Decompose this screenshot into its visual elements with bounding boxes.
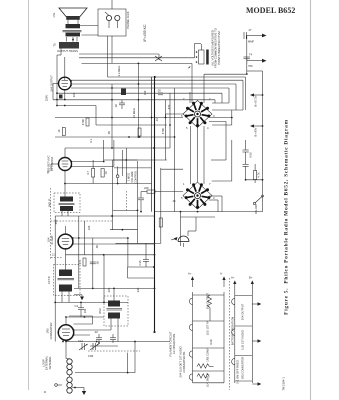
- svg-text:A-: A-: [220, 272, 223, 276]
- svg-text:CONTROL: CONTROL: [134, 170, 138, 184]
- bus wire y84: [71, 83, 236, 110]
- resistor R14: [141, 186, 160, 193]
- svg-text:1R5: 1R5: [46, 328, 50, 333]
- 3rd IF transformer box: [98, 296, 128, 326]
- wire V1 grid loop: [69, 316, 93, 324]
- capacitor C12: [94, 330, 102, 343]
- svg-text:470K: 470K: [81, 119, 85, 125]
- filament rung 5: [193, 382, 225, 384]
- volume control terminal: [116, 167, 119, 184]
- label 1U5: [47, 155, 55, 172]
- wire transformer leads: [67, 37, 78, 42]
- svg-text:.05: .05: [157, 89, 161, 93]
- svg-text:1U5 1ST AUDIO: 1U5 1ST AUDIO: [241, 330, 245, 350]
- wire x92.8: [92, 238, 94, 288]
- bus wire y108: [56, 105, 96, 107]
- svg-text:MMF: MMF: [248, 40, 254, 44]
- bus wire y317: [66, 316, 104, 318]
- capacitor C4: [75, 302, 85, 318]
- label .05b: [107, 131, 111, 135]
- voltage note text: [211, 28, 221, 68]
- B+ tap 2: [250, 124, 263, 136]
- main shielded bus: [152, 76, 155, 332]
- label 455: [54, 219, 58, 224]
- junction dot bus 255: [154, 254, 156, 289]
- wire top right riser: [246, 36, 248, 75]
- wire y161: [113, 159, 138, 161]
- wire y191.6: [141, 192, 183, 198]
- capacitor C13: [110, 334, 116, 343]
- svg-text:ON-OFF: ON-OFF: [254, 203, 258, 214]
- tube socket V3 pinwheel: [183, 101, 212, 128]
- filament rung 1: [189, 295, 224, 305]
- svg-text:POINTS INDICATED VTVM: POINTS INDICATED VTVM: [217, 31, 221, 65]
- tuning capacitor C1A: [78, 339, 88, 350]
- tube V4 3V4 output: [58, 77, 72, 90]
- wire V2 to IF: [62, 178, 68, 216]
- svg-text:7: 7: [209, 182, 211, 186]
- wire pinwheels link: [191, 126, 205, 184]
- resistor R16: [159, 218, 162, 227]
- wire y171 left: [46, 164, 59, 174]
- wire x103.7: [103, 140, 105, 162]
- bus wire y80: [71, 80, 243, 110]
- bus wire y168: [114, 167, 152, 169]
- filament rung 3: [189, 348, 224, 368]
- bus wire y77: [108, 76, 246, 110]
- battery rung 1: [232, 296, 253, 305]
- svg-text:33K: 33K: [136, 287, 140, 292]
- wire x231.8: [212, 140, 232, 181]
- capacitor C5: [121, 89, 126, 96]
- capacitor C8: [90, 261, 100, 265]
- tube socket V2 pinwheel: [183, 182, 212, 209]
- wire x167: [165, 100, 167, 160]
- svg-text:1R5 CONVERTER: 1R5 CONVERTER: [241, 357, 245, 380]
- svg-text:1 MEG: 1 MEG: [127, 173, 131, 181]
- label 1U4: [46, 235, 53, 244]
- svg-text:3V4 OUTPUT: 3V4 OUTPUT: [206, 292, 210, 309]
- svg-text:S-1 ON-OFF RHEO: S-1 ON-OFF RHEO: [236, 360, 240, 384]
- battery operation dashed divider: [230, 278, 235, 390]
- svg-text:0.05: 0.05: [249, 152, 253, 158]
- svg-text:A+: A+: [188, 272, 192, 276]
- rung labels: [206, 292, 214, 387]
- svg-text:100: 100: [143, 90, 147, 95]
- title MODEL B652: [246, 6, 295, 15]
- 1st IF transformer T2: [48, 193, 81, 213]
- switch S2 wafer: [188, 50, 209, 69]
- bus wire y160: [104, 159, 167, 161]
- svg-text:.01: .01: [155, 118, 159, 122]
- svg-text:C1A: C1A: [78, 339, 83, 343]
- svg-text:100: 100: [83, 308, 87, 313]
- resistor R8 vertical zigzag: [208, 295, 212, 321]
- svg-text:4.7: 4.7: [86, 171, 90, 175]
- bus wire y211.6: [155, 211, 263, 213]
- bus wire y93: [56, 92, 222, 103]
- page left edge: [28, 0, 30, 390]
- label 3.3: [117, 66, 121, 77]
- svg-text:250V: 250V: [45, 95, 49, 101]
- svg-text:220: 220: [72, 92, 76, 97]
- svg-text:4.7K: 4.7K: [257, 172, 261, 178]
- 2nd IF transformer T3: [47, 265, 80, 296]
- svg-text:120: 120: [87, 225, 91, 230]
- wire y346: [90, 342, 118, 346]
- svg-text:7: 7: [183, 97, 185, 101]
- filament rail A: [193, 292, 225, 383]
- svg-text:5: 5: [186, 126, 188, 130]
- bus wire y88: [71, 87, 229, 103]
- svg-text:1U5 DET-AVC: 1U5 DET-AVC: [47, 155, 51, 172]
- svg-text:ANTENNA: ANTENNA: [48, 356, 52, 369]
- A+ terminal arrows: [188, 272, 226, 288]
- wire pinwheel2 right taps: [209, 196, 222, 212]
- wire y278: [128, 267, 154, 278]
- pin labels pinwheel V2: [181, 182, 215, 200]
- svg-text:47K: 47K: [167, 104, 171, 109]
- wire y229.7: [110, 229, 138, 231]
- bus wire y183.5: [64, 183, 151, 185]
- wire x113.9: [113, 140, 115, 167]
- svg-text:T5: T5: [53, 43, 57, 47]
- capacitor C19 47mmf: [244, 28, 267, 44]
- label B battery: [43, 391, 47, 393]
- svg-text:1U4: 1U4: [46, 237, 50, 242]
- dashed AVC stub: [51, 253, 62, 258]
- wire V2 pins: [65, 148, 114, 178]
- svg-text:45: 45: [173, 199, 176, 203]
- label 47b: [167, 104, 171, 109]
- bus wire y302.4: [55, 302, 128, 304]
- svg-text:.05: .05: [107, 131, 111, 135]
- svg-text:10 MEG: 10 MEG: [132, 108, 136, 118]
- filament labels left: [179, 346, 187, 377]
- svg-text:1: 1: [183, 182, 185, 186]
- wire x78.8: [78, 216, 80, 288]
- wire x172: [169, 93, 171, 148]
- wire y179.8: [245, 179, 263, 181]
- svg-text:LOOP: LOOP: [41, 359, 45, 367]
- svg-text:3V4 OUTPUT: 3V4 OUTPUT: [241, 303, 245, 320]
- svg-text:.05: .05: [96, 261, 100, 265]
- label 3V4 OUTPUT: [45, 75, 54, 101]
- battery ground 1: [252, 302, 261, 306]
- wire y317 right: [117, 326, 119, 342]
- svg-text:FILAMENT CIRCUIT: FILAMENT CIRCUIT: [169, 331, 173, 356]
- resistor R7: [57, 128, 65, 136]
- label 2nd if: [95, 245, 99, 249]
- speaker LS: [59, 8, 87, 20]
- loop antenna L1: [66, 359, 72, 394]
- svg-text:22K: 22K: [107, 287, 111, 292]
- svg-text:Figure 5. Philco Portable Rad: Figure 5. Philco Portable Radio Model B6…: [284, 119, 290, 315]
- caption Figure 5: [284, 119, 290, 315]
- B+ tap 67V: [250, 93, 263, 106]
- phone jack dome: [171, 212, 215, 247]
- speaker label: [52, 12, 56, 17]
- wire V1 pins: [65, 316, 111, 358]
- wire y210: [113, 209, 138, 211]
- bus wire y221 dashed: [51, 188, 113, 260]
- capacitor C18: [138, 198, 144, 213]
- label 1R5: [46, 323, 54, 340]
- wire V3 plate long: [127, 237, 129, 267]
- svg-text:1U4 2ND IF: 1U4 2ND IF: [206, 373, 210, 388]
- svg-text:T4: T4: [249, 53, 253, 57]
- label 220: [72, 92, 76, 97]
- svg-text:B+: B+: [249, 276, 253, 280]
- battery rung 2: [232, 326, 253, 335]
- bus wire y125: [96, 106, 167, 126]
- battery ground 3: [252, 382, 261, 386]
- label loop: [41, 355, 52, 370]
- capacitor C17: [243, 165, 249, 180]
- label 100: [143, 90, 147, 95]
- wire x122.4: [122, 150, 126, 211]
- svg-text:CONVERTER: CONVERTER: [49, 323, 53, 340]
- svg-text:47: 47: [249, 28, 252, 32]
- svg-text:PHONE JACK: PHONE JACK: [126, 11, 130, 28]
- page right edge: [310, 0, 312, 400]
- earphone jack J1 box: [98, 9, 130, 36]
- wire trans right to jack: [73, 26, 98, 42]
- gang link dashed: [88, 350, 140, 352]
- svg-text:CONVERTER B1: CONVERTER B1: [182, 351, 186, 372]
- resistor R3 4.7meg: [86, 160, 95, 184]
- svg-text:1ST IF: 1ST IF: [47, 276, 51, 284]
- terminal B: [55, 384, 62, 387]
- svg-text:2.2: 2.2: [52, 253, 56, 257]
- svg-text:2: 2: [209, 97, 211, 101]
- wire pinwheel1 left: [166, 114, 184, 118]
- svg-text:R19: R19: [209, 339, 213, 344]
- svg-text:1R5 CONV: 1R5 CONV: [206, 348, 210, 362]
- wire V1 bottom leads: [62, 340, 97, 343]
- filament circuit label: [169, 331, 177, 356]
- svg-text:OUTPUT TRANS: OUTPUT TRANS: [57, 49, 78, 53]
- label 0.1: [89, 139, 93, 143]
- wire x226 lower: [211, 140, 226, 160]
- svg-text:IF AMP: IF AMP: [50, 235, 54, 244]
- svg-text:LS1: LS1: [52, 12, 56, 17]
- output transformer T5 primary: [63, 24, 82, 36]
- svg-text:455: 455: [54, 219, 58, 224]
- svg-text:3.3 MEG: 3.3 MEG: [117, 66, 121, 77]
- bus wire y288.4: [74, 288, 155, 290]
- capacitor C21: [114, 100, 125, 110]
- wire x84.4: [83, 221, 85, 255]
- tube V3 1U4: [57, 234, 73, 249]
- capacitor C20 750mmf: [244, 53, 267, 69]
- svg-text:B+ 67.5V: B+ 67.5V: [254, 95, 258, 106]
- battery rail B: [235, 292, 253, 383]
- wire jack to top edge: [111, 0, 113, 9]
- wire x104: [103, 255, 105, 303]
- svg-text:.05: .05: [95, 245, 99, 249]
- wire trans to B+: [56, 48, 61, 106]
- bus wire y341.5: [65, 341, 170, 343]
- pin labels pinwheel V3: [181, 97, 215, 130]
- wire tube V4 pins: [53, 57, 66, 100]
- wire x137.5: [137, 161, 139, 243]
- svg-text:B+ 90V: B+ 90V: [254, 127, 258, 136]
- TM number: [282, 377, 286, 391]
- bus wire y117.5: [55, 117, 183, 119]
- output trans block: [53, 42, 80, 53]
- svg-text:TM 2184-1: TM 2184-1: [282, 377, 286, 391]
- bus wire y254.8: [66, 254, 155, 256]
- bus wire y137: [55, 136, 175, 138]
- svg-text:EXTERNAL: EXTERNAL: [45, 355, 49, 370]
- wire osc box: [111, 288, 118, 331]
- capacitor C22: [59, 95, 63, 99]
- label osc: [136, 287, 140, 292]
- capacitor C15: [138, 243, 149, 267]
- svg-text:3V4 1U5 DET 1ST AUDIO: 3V4 1U5 DET 1ST AUDIO: [179, 346, 183, 377]
- wire pinwheel1 right taps: [209, 117, 233, 140]
- B+ rail right: [247, 71, 264, 212]
- svg-text:VOLUME: VOLUME: [130, 171, 134, 183]
- label volume control: [127, 170, 138, 184]
- svg-text:AC OPERATION: AC OPERATION: [172, 334, 176, 354]
- filament rung 4: [189, 371, 224, 380]
- svg-text:.02: .02: [114, 104, 118, 108]
- battery rung 4: [235, 380, 253, 382]
- tube V2 1U5: [58, 158, 72, 172]
- wire loop around V2 socket: [116, 168, 184, 244]
- svg-text:BATTERY OPERATION: BATTERY OPERATION: [231, 317, 235, 346]
- tuning capacitor C1B: [90, 343, 99, 350]
- capacitor C16: [243, 140, 253, 164]
- svg-text:OSC: OSC: [98, 308, 102, 314]
- svg-text:0.1: 0.1: [89, 139, 93, 143]
- svg-text:1K: 1K: [57, 129, 61, 132]
- resistor R10 4.7K: [254, 164, 261, 183]
- bus wire y212: [55, 215, 155, 217]
- IF label: [143, 24, 147, 42]
- svg-text:4: 4: [207, 126, 209, 130]
- wire speaker to transformer: [68, 20, 78, 24]
- wire V3 to T3: [62, 256, 69, 302]
- wire x112.7: [112, 160, 114, 230]
- svg-text:50: 50: [46, 170, 50, 173]
- resistor R4 10meg: [101, 169, 108, 178]
- svg-text:.02: .02: [94, 330, 98, 334]
- wire x138: [138, 63, 140, 137]
- svg-text:470K: 470K: [161, 128, 165, 134]
- svg-text:2ND IF: 2ND IF: [48, 198, 52, 207]
- label 1200: [87, 225, 91, 230]
- wire osc L: [75, 342, 135, 374]
- crossing marks: [155, 56, 162, 61]
- switch S1: [253, 195, 263, 214]
- svg-text:C4: C4: [75, 304, 79, 308]
- label r22: [107, 287, 111, 292]
- svg-text:47K: 47K: [78, 259, 82, 264]
- wire jack down: [108, 36, 113, 148]
- svg-text:5: 5: [181, 196, 183, 200]
- svg-text:B: B: [43, 391, 47, 393]
- ground arrow y295: [74, 295, 84, 300]
- wire x126.3: [125, 148, 127, 184]
- battery terminal arrows: [231, 276, 254, 293]
- svg-text:MODEL B652: MODEL B652: [246, 6, 295, 15]
- resistor R5: [78, 258, 86, 266]
- svg-text:3: 3: [213, 196, 215, 200]
- nested corner wires: [204, 74, 247, 110]
- wire V3 pins: [66, 226, 156, 256]
- bus end dot: [153, 331, 155, 333]
- filament rung 2: [189, 321, 224, 331]
- bus wire y99.5: [53, 99, 215, 103]
- resistor R8: [81, 118, 89, 126]
- svg-text:A+: A+: [231, 276, 235, 280]
- battery rung 3: [232, 356, 253, 365]
- label 470K: [132, 108, 165, 134]
- resistor R12: [138, 128, 141, 138]
- wire x177: [174, 88, 176, 212]
- svg-text:IF=455 KC: IF=455 KC: [143, 24, 147, 42]
- wire pinwheel1 top: [190, 92, 204, 103]
- svg-text:C1B: C1B: [88, 354, 93, 358]
- wire loop tap: [72, 387, 86, 395]
- battery ground 2: [252, 339, 261, 343]
- label 45: [173, 199, 176, 203]
- capacitor C14: [157, 89, 163, 95]
- tube V1 1R5: [58, 325, 75, 341]
- bus wire y148: [65, 147, 170, 149]
- wire y267: [128, 266, 155, 268]
- wire x231.8 top: [212, 110, 232, 125]
- battery labels: [236, 303, 245, 384]
- svg-text:C15: C15: [138, 260, 142, 265]
- label c9: [83, 308, 87, 313]
- svg-text:750: 750: [248, 64, 253, 68]
- svg-text:10: 10: [104, 171, 108, 174]
- transformer secondary wires: [79, 44, 202, 104]
- label gang: [88, 354, 93, 358]
- wire left column x55: [54, 216, 56, 342]
- svg-text:22K: 22K: [144, 186, 149, 190]
- svg-text:1U5 1ST AF: 1U5 1ST AF: [206, 320, 210, 335]
